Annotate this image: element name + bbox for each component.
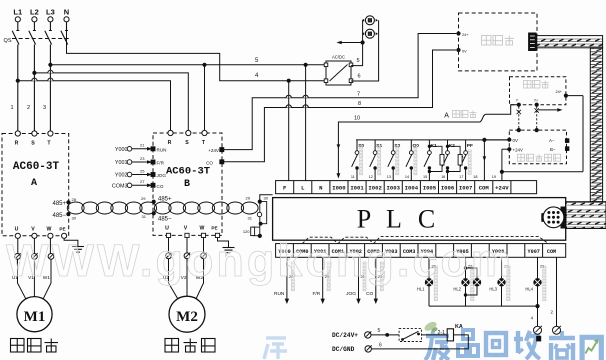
svg-text:Y007: Y007	[527, 249, 539, 255]
PLC input terminal row	[276, 181, 537, 194]
wire F/R to VFD A	[322, 257, 324, 299]
VFD B terminal CO	[151, 183, 155, 187]
svg-text:485−: 485−	[158, 217, 172, 223]
svg-text:AC60-3T: AC60-3T	[13, 161, 60, 173]
motor M2 wires	[168, 238, 170, 253]
junction L1 branch	[16, 79, 20, 83]
svg-text:P: P	[357, 205, 371, 234]
svg-text:R: R	[168, 140, 172, 146]
svg-text:120: 120	[243, 229, 250, 234]
svg-text:PF: PF	[467, 143, 473, 149]
wire L2 to VFD B S	[34, 73, 188, 131]
svg-text:6: 6	[379, 342, 382, 348]
svg-text:L2: L2	[30, 8, 39, 17]
ground below VFD B PE	[218, 238, 229, 248]
svg-text:PE: PE	[59, 227, 65, 232]
svg-text:2: 2	[27, 105, 30, 111]
svg-text:0V: 0V	[462, 49, 467, 53]
svg-text:S: S	[185, 140, 189, 146]
VFD B terminal T	[202, 130, 207, 135]
svg-text:12: 12	[369, 175, 373, 179]
svg-text:5: 5	[378, 328, 381, 334]
svg-text:I001: I001	[350, 185, 364, 192]
svg-text:CO: CO	[206, 160, 213, 165]
svg-text:27: 27	[140, 179, 145, 184]
touch screen connector	[529, 33, 536, 51]
svg-text:W: W	[47, 227, 52, 233]
svg-text:I005: I005	[423, 185, 437, 192]
svg-text:Y002: Y002	[115, 173, 128, 179]
wire L3 QS to VFD A T	[49, 45, 51, 132]
label pai xian ji (traverse machine)	[165, 339, 179, 353]
wire L1 to VFD B R	[18, 81, 171, 131]
svg-text:COM: COM	[479, 185, 490, 192]
svg-text:L: L	[386, 205, 402, 234]
relay coil KA	[447, 329, 453, 341]
wire 0V common	[484, 139, 509, 141]
VFD B terminal 485-	[152, 211, 156, 215]
comm cable band to PLC connector	[566, 202, 606, 229]
rotary encoder xuan zhuan bian ma qi	[509, 130, 566, 164]
wire +24V net	[501, 149, 503, 180]
wire COM to DC terminal	[556, 257, 558, 326]
switch K1	[428, 140, 430, 151]
wire N down to QS	[66, 22, 68, 31]
svg-text:JOG: JOG	[346, 291, 356, 297]
VFD B terminal RUN	[151, 147, 155, 151]
svg-text:13: 13	[387, 175, 391, 179]
parallel contact bracket	[429, 146, 442, 171]
motor M1	[17, 297, 52, 332]
wire 7 +24V to touch screen	[222, 34, 456, 150]
svg-text:I003: I003	[387, 185, 401, 192]
wire coil to GND	[372, 335, 469, 349]
touch screen terminal 24+	[456, 31, 460, 35]
svg-text:30: 30	[264, 196, 269, 201]
svg-text:L3: L3	[46, 8, 55, 17]
wire DC- output	[351, 20, 379, 81]
input common bus	[356, 139, 509, 141]
junction L2 branch	[32, 71, 36, 75]
comm cable vertical band (right edge)	[590, 48, 602, 202]
VFD A terminal T	[48, 131, 53, 136]
svg-text:B−: B−	[550, 147, 556, 152]
watermark feipin huishou	[425, 330, 601, 360]
RS485 twisted pair cable	[68, 201, 257, 203]
svg-text:I006: I006	[441, 185, 455, 192]
VFD B terminal JOG	[151, 173, 155, 177]
lamp HL4	[537, 257, 539, 278]
dashed COM jumpers	[302, 237, 338, 243]
wire 4 drop to PLC power terminal	[288, 81, 290, 181]
VFD B terminal R	[168, 130, 173, 135]
svg-text:U: U	[165, 226, 169, 232]
VFD A terminal S	[32, 131, 37, 136]
junction PLC L branch	[304, 63, 308, 67]
power supply AC/DC converter U3	[326, 61, 351, 85]
svg-text:17: 17	[459, 175, 463, 179]
switch S0	[356, 140, 358, 151]
svg-text:N: N	[64, 8, 69, 17]
shielded cable B to encoder	[536, 107, 538, 131]
motor M1 wires	[17, 238, 19, 253]
svg-text:F/R: F/R	[157, 161, 165, 166]
svg-text:CO: CO	[157, 184, 164, 189]
VFD B terminal 485+	[152, 200, 156, 204]
svg-text:0V: 0V	[513, 138, 518, 143]
svg-text:HL1: HL1	[417, 287, 425, 292]
watermark logo green arrow	[586, 341, 598, 354]
svg-text:24+: 24+	[462, 33, 469, 37]
VFD A terminal R	[15, 131, 20, 136]
svg-text:W: W	[200, 226, 205, 232]
wire 4 neutral N to AC/DC supply	[67, 22, 327, 81]
svg-text:RUN: RUN	[274, 291, 285, 297]
svg-text:I002: I002	[368, 185, 382, 192]
svg-text:6: 6	[358, 74, 361, 80]
svg-text:7: 7	[357, 91, 360, 97]
limit switch (dashed box)	[399, 329, 421, 342]
svg-text:PE: PE	[211, 226, 217, 231]
motor M2	[169, 296, 205, 332]
fuse socket FU2	[365, 29, 374, 38]
svg-text:V: V	[184, 226, 188, 232]
wire 5 DC+	[371, 334, 399, 336]
svg-text:Y001: Y001	[115, 160, 128, 166]
svg-text:3: 3	[43, 105, 46, 111]
svg-text:+24V: +24V	[495, 185, 509, 192]
junction PLC N branch	[287, 79, 291, 83]
svg-text:M1: M1	[24, 309, 46, 325]
VFD B terminal CO right	[220, 160, 224, 164]
svg-text:18: 18	[473, 175, 477, 179]
wire DC+ output	[351, 20, 363, 65]
svg-text:HL2: HL2	[453, 287, 461, 292]
svg-text:JOG: JOG	[157, 173, 167, 178]
svg-text:DC/24V+: DC/24V+	[332, 332, 358, 339]
svg-text:30: 30	[72, 216, 77, 221]
wire L2 QS to VFD A S	[33, 45, 35, 132]
switch PF	[465, 140, 467, 151]
wire L2 down to QS	[33, 22, 35, 31]
svg-text:IN: IN	[534, 99, 538, 103]
partial blue glyph bottom left	[264, 338, 287, 359]
junction VFD B T branch	[202, 63, 206, 67]
svg-text:+24V: +24V	[208, 148, 220, 153]
svg-text:8: 8	[358, 101, 361, 107]
switch Q0	[410, 140, 412, 151]
svg-text:28: 28	[72, 197, 77, 202]
lamp HL2 twin branch	[466, 268, 478, 278]
svg-text:+24V: +24V	[513, 148, 523, 153]
svg-text:24+: 24+	[556, 90, 563, 94]
VFD B terminal +24V	[220, 148, 224, 152]
label shou xian ji (take-up machine)	[11, 339, 25, 353]
svg-text:CO: CO	[366, 291, 373, 297]
svg-text:RUN: RUN	[157, 147, 167, 152]
svg-text:29: 29	[246, 196, 251, 201]
svg-text:QS: QS	[4, 38, 12, 44]
svg-text:R: R	[15, 141, 19, 147]
wire 8 CO to touch screen	[222, 50, 456, 162]
wire L3 down to QS	[49, 22, 51, 31]
svg-text:N: N	[319, 185, 322, 192]
wire 10 A-phase pulse to X000	[338, 105, 518, 174]
wire 5 drop to PLC L terminal	[305, 65, 307, 181]
wire L1 down to QS	[17, 22, 19, 31]
svg-text:I000: I000	[332, 185, 346, 192]
svg-text:16: 16	[441, 175, 445, 179]
shielded cable A to encoder	[518, 107, 520, 131]
PLC main box	[273, 198, 566, 241]
wire 5 L3 phase to AC/DC supply	[50, 64, 326, 66]
svg-text:F/R: F/R	[312, 291, 320, 297]
PLC output terminal row	[276, 244, 566, 258]
green leaf near 2-1	[423, 320, 438, 332]
junction L3 branch	[48, 63, 52, 67]
svg-text:U: U	[15, 227, 19, 233]
touch screen terminal 0V	[456, 48, 460, 52]
wire L1 QS to VFD A R	[17, 45, 19, 132]
junction DC+	[361, 40, 365, 44]
svg-text:31: 31	[142, 214, 147, 219]
lamp common bus	[429, 305, 538, 307]
svg-text:M2: M2	[176, 309, 198, 325]
touch screen chu mo ping	[459, 13, 538, 71]
switch K2	[447, 140, 449, 151]
svg-text:DC/GND: DC/GND	[332, 346, 355, 353]
wire RUN to VFD A	[286, 257, 288, 299]
svg-text:AC60-3T: AC60-3T	[166, 166, 210, 178]
wire to relay coil	[422, 334, 448, 336]
svg-text:5: 5	[357, 58, 360, 64]
fuse socket FU1	[365, 16, 374, 25]
svg-text:A−: A−	[549, 138, 555, 143]
svg-text:1: 1	[10, 105, 13, 111]
wire JOG to VFD A	[358, 257, 360, 299]
svg-text:V: V	[31, 227, 35, 233]
svg-text:10: 10	[354, 116, 360, 122]
switch S1	[374, 140, 376, 151]
svg-text:21: 21	[140, 143, 145, 148]
svg-text:A: A	[444, 112, 449, 119]
svg-text:L1: L1	[13, 8, 22, 17]
wire CO to VFD A	[375, 257, 377, 299]
svg-text:23: 23	[140, 156, 145, 161]
lamp HL3	[501, 257, 503, 278]
svg-text:C: C	[418, 205, 435, 234]
VFD inverter AC60-3T A	[2, 134, 69, 236]
svg-text:AC/DC: AC/DC	[332, 55, 345, 60]
svg-text:485+: 485+	[158, 197, 172, 203]
switch S2	[392, 140, 394, 151]
svg-text:B: B	[184, 179, 190, 190]
svg-text:11: 11	[351, 175, 355, 179]
VFD B terminal S	[186, 130, 191, 135]
resistor 120 ohm terminator	[260, 202, 267, 224]
svg-text:I004: I004	[405, 185, 419, 192]
svg-text:A: A	[31, 178, 37, 189]
svg-text:HL4: HL4	[525, 287, 533, 292]
svg-text:COM: COM	[547, 249, 556, 255]
svg-text:485+: 485+	[52, 201, 66, 207]
VFD inverter AC60-3T B	[153, 133, 222, 235]
parallel contact bracket	[448, 146, 461, 171]
wire RS485 to PLC	[260, 195, 273, 202]
VFD B terminal F/R	[151, 160, 155, 164]
svg-text:S: S	[31, 141, 35, 147]
lamp HL2	[465, 257, 467, 278]
svg-text:25: 25	[140, 168, 145, 173]
wire to VFD B T	[204, 65, 206, 131]
svg-text:19: 19	[492, 175, 496, 179]
lamp HL1	[428, 257, 430, 278]
svg-text:I007: I007	[459, 185, 472, 192]
ground below VFD A PE	[64, 238, 78, 246]
svg-text:29: 29	[141, 196, 146, 201]
svg-text:COM3: COM3	[112, 184, 128, 190]
svg-text:485−: 485−	[52, 213, 66, 219]
wire to DC terminal	[537, 306, 539, 326]
svg-text:Y000: Y000	[115, 147, 128, 153]
svg-text:14: 14	[405, 175, 409, 179]
arrow to counter input	[539, 109, 558, 111]
svg-text:WWW.gongkong.com: WWW.gongkong.com	[6, 235, 514, 286]
PLC round connector	[561, 207, 567, 229]
svg-text:15: 15	[423, 175, 427, 179]
arrow stub DC+ feed	[338, 42, 363, 44]
counter ji mi biao	[510, 77, 566, 105]
comm cable horizontal band (touch screen to right edge)	[537, 36, 603, 48]
svg-text:HL3: HL3	[489, 287, 497, 292]
svg-text:31: 31	[248, 216, 253, 221]
